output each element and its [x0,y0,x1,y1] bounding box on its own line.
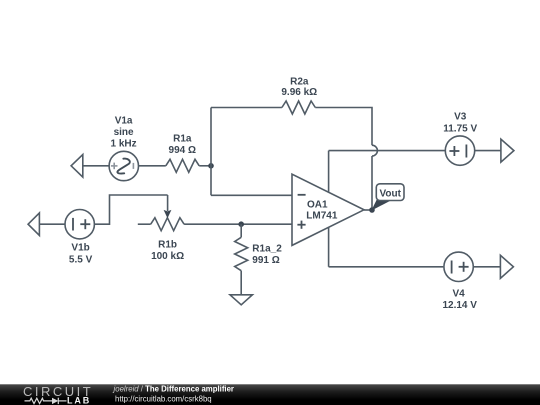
output node junction [369,207,375,213]
op-amp V- pin wire [328,227,330,266]
wire V3 to output flag [475,150,501,152]
svg-text:V1b: V1b [71,243,89,254]
node A junction [208,163,214,169]
svg-text:R2a: R2a [290,77,309,88]
wire R1b left stub [138,223,151,225]
label R2a [281,77,317,99]
wire R2a right lead [315,108,372,146]
svg-text:LAB: LAB [67,395,91,405]
label R1b [151,239,184,262]
output flag (V3) [501,139,514,162]
svg-text:994 Ω: 994 Ω [169,145,196,156]
ground [230,295,252,305]
node B junction [238,221,244,227]
label R1a [169,134,196,156]
svg-text:OA1: OA1 [307,200,328,211]
wire node B to R1a_2 [240,224,242,237]
label V3 [443,112,477,135]
svg-text:joelreid / The Difference ampl: joelreid / The Difference amplifier [113,384,234,393]
label R1a_2 [252,244,282,266]
voltage source V3 [445,136,474,165]
svg-text:5.5 V: 5.5 V [69,254,93,265]
wire V+ supply to V3 [329,150,446,152]
wire flag to V1a [83,165,109,167]
wire node A to inverting input [211,194,292,196]
svg-text:R1b: R1b [158,239,177,250]
svg-text:LM741: LM741 [306,211,338,222]
svg-text:9.96 kΩ: 9.96 kΩ [281,87,317,98]
logo resistor-diode glyph [25,398,67,404]
label V4 [442,289,477,311]
svg-text:R1a_2: R1a_2 [252,244,282,255]
wire R2a left lead [211,107,282,109]
op-amp OA1 [292,174,364,245]
svg-text:12.14 V: 12.14 V [442,300,477,311]
wire R1a to node A [199,165,211,167]
input flag (node of V1a) [71,155,83,178]
output flag (V4) [500,255,513,278]
svg-text:V1a: V1a [115,115,133,126]
wire output lead [364,209,372,211]
wire hop over supply wire [372,145,377,156]
wire V1a to R1a [139,165,166,167]
svg-text:991 Ω: 991 Ω [252,255,279,266]
wire R1a_2 to ground [240,271,242,295]
wire node A vertical [210,108,212,196]
R1b wiper arrow [167,195,169,211]
label OA1 LM741 [306,200,338,222]
svg-text:V3: V3 [454,112,467,123]
svg-text:V4: V4 [452,289,465,300]
svg-text:Vout: Vout [379,188,401,199]
wire R1b to non-inverting input [184,223,292,225]
svg-text:R1a: R1a [173,134,192,145]
resistor R1a [166,159,199,172]
wire V- supply to V4 [329,266,444,268]
svg-text:1 kHz: 1 kHz [111,138,137,149]
voltage source V4 [444,252,473,281]
net flag Vout [371,184,404,211]
resistor R2a [282,101,315,114]
label V1b [69,243,93,266]
wire flag to V1b [39,223,65,225]
wire V4 to output flag [473,266,500,268]
label V1a [111,115,137,149]
resistor R1a_2 [235,237,248,270]
wire feedback down to output [371,156,373,210]
input flag (node of V1b) [28,213,39,236]
op-amp V+ pin wire [328,151,330,193]
svg-text:http://circuitlab.com/csrk8bq: http://circuitlab.com/csrk8bq [115,394,212,403]
voltage source V1b [65,210,94,239]
wire V1b to R1b wiper [94,195,167,224]
svg-text:sine: sine [114,127,134,138]
svg-text:11.75 V: 11.75 V [443,123,477,134]
svg-text:100 kΩ: 100 kΩ [151,251,184,262]
resistor R1b [151,218,184,231]
voltage source V1a (sine) [109,151,138,180]
